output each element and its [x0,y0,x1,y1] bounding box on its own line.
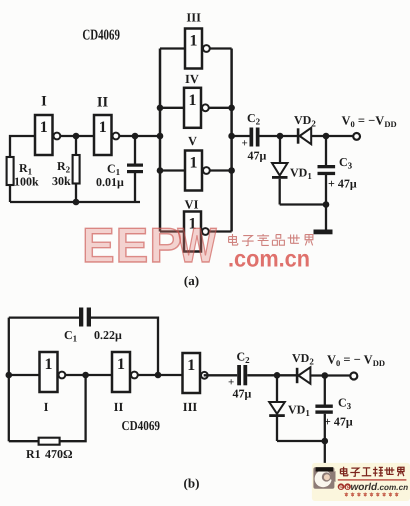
inverter U1-I [35,115,60,155]
wire C1 bottom to rail [134,173,136,202]
wire top feedback right (b) [91,318,158,375]
wire node A down to VD1 [279,136,281,163]
wire I out to II in (b) [65,374,112,376]
wire left bus (b) [8,318,10,442]
wire to ground (b) [324,441,326,467]
eeworld logo underline [338,479,407,480]
svg-text:W: W [178,219,218,273]
node ground junction (a) [323,201,330,208]
diode VD2 (a) [297,128,311,144]
svg-text:EEP: EEP [82,219,183,273]
svg-text:470Ω: 470Ω [45,447,73,461]
svg-text:IV: IV [185,72,199,86]
diode VD1 (b) [269,402,285,417]
svg-text:1: 1 [99,119,107,136]
node left bus - V in [157,167,164,174]
inverter U1-IV [184,88,209,128]
inverter U2-III (b) [183,353,208,393]
wire C2 to VD2 [260,135,298,137]
diode VD1 (a) [272,163,288,179]
node R2 top junction [73,133,80,140]
wire II out to bus [120,135,161,137]
wire bottom rail (a) [10,201,140,203]
svg-text:1: 1 [187,357,195,374]
inverter U1-II [94,115,119,155]
capacitor C2 (b) [237,365,247,385]
resistor R2 [73,155,80,184]
svg-text:1: 1 [190,155,198,172]
svg-text:III: III [183,400,198,414]
wire II out to III in (b) [138,374,183,376]
svg-text:47μ: 47μ [248,149,267,163]
node node A (b) [274,372,281,379]
svg-text:(a): (a) [184,273,199,288]
node left bus - IV in [157,105,164,112]
svg-text:II: II [97,95,109,111]
wire node B down to C3 [325,136,327,165]
wire R1 to junction (b) [60,375,86,441]
wire V output [210,169,232,171]
node C1 return junction (b) [155,372,162,379]
inverter U2-I (b) [40,352,66,392]
eeworld logo slogan [344,493,348,497]
resistor R1 [7,157,14,185]
wire III output [210,47,232,49]
svg-text:III: III [186,11,201,25]
svg-text:e: e [339,484,343,491]
wire bus to C2 [232,135,250,137]
wire down to C1 [134,136,136,164]
wire top feedback left (b) [9,316,79,318]
wire to I input (b) [9,374,40,376]
svg-text:0.22μ: 0.22μ [94,328,122,342]
svg-text:.com.cn: .com.cn [377,483,408,492]
eeworld logo url [338,482,408,497]
capacitor C3 (a) [318,165,336,175]
wire VI output [209,230,232,232]
node left bus junction (b) [6,372,13,379]
wire C3 bottom (b) [324,414,326,441]
capacitor C1 [127,164,143,174]
svg-text:1: 1 [45,356,53,373]
svg-text:I: I [44,400,49,414]
ground (b) / logo icon top bar [316,467,334,471]
wire VD1 to bottom (b) [276,417,278,441]
inverter U1-V [185,151,210,191]
svg-text:II: II [114,400,124,414]
node C1 top junction [132,133,139,140]
wire R2 bottom [75,184,77,203]
output terminal V0 (a) [353,133,360,140]
wire VD1 to bottom [279,179,281,205]
svg-text:I: I [41,94,47,110]
svg-text:CD4069: CD4069 [122,418,161,433]
svg-text:R1: R1 [26,447,41,461]
node ground junction (b) [322,438,329,445]
svg-text:1: 1 [117,356,125,373]
svg-text:e: e [346,484,350,491]
diode VD2 (b) [296,367,311,383]
wire C3 bottom [325,175,327,205]
wire node A down to VD1 (b) [276,375,278,402]
wire I out to II in [60,135,94,137]
wire R1 bottom [9,185,11,202]
node node A (a) [277,133,284,140]
capacitor C3 (b) [315,405,332,414]
wire V input [160,169,185,171]
svg-text:0.01μ: 0.01μ [96,175,124,189]
wire III input [160,47,185,49]
node right bus - V out [228,167,235,174]
svg-text:world: world [351,482,379,493]
node R2 bottom junction [73,199,80,206]
wire bottom link (a) [280,203,326,205]
svg-text:.com.cn: .com.cn [228,246,310,272]
wire VD2 to output (b) [310,374,350,376]
svg-text:1: 1 [190,33,198,50]
wire III out to C2 (b) [204,374,238,376]
svg-text:(b): (b) [184,476,200,491]
inverter U2-II (b) [112,352,138,392]
wire left bus (a) [159,49,162,232]
wire bottom link (b) [277,440,325,442]
node left bus - main [157,133,164,140]
node R1 junction (b) [82,372,89,379]
wire node B down to C3 (b) [324,376,326,405]
output terminal V0 (b) [350,373,357,380]
watermark text dianzi chanpin shijie [229,234,238,245]
svg-text:30k: 30k [52,174,71,188]
svg-text:100k: 100k [14,175,39,189]
wire IV input [160,107,184,109]
node right bus - IV out [228,105,235,112]
svg-text:VI: VI [185,198,199,212]
wire I-input to R1 top [10,136,35,157]
wire right bus (a) [230,49,233,232]
eeworld logo title dianzi gongcheng shijie [340,467,347,476]
capacitor C2 (polarized) [250,128,260,147]
wire C2 to VD2 (b) [247,374,296,376]
ground (a) [314,230,333,235]
wire to ground (a) [325,205,327,230]
svg-text:CD4069: CD4069 [82,28,120,44]
node node B (b) [322,372,329,379]
eeworld logo background [312,463,410,501]
eeworld logo icon [313,467,335,489]
resistor R1 (b) [39,438,60,445]
inverter U1-III [185,29,210,69]
node right bus - C2 [228,133,235,140]
wire rail to R1 (b) [9,440,39,442]
wire IV output [209,107,232,109]
svg-text:V: V [188,134,197,148]
svg-text:47μ: 47μ [233,387,252,401]
capacitor C1 (b) [79,308,91,327]
svg-text:1: 1 [40,119,48,136]
node node B (a) [323,133,330,140]
inverter U1-VI [184,212,209,252]
wire VI input [160,230,184,232]
wire down to R2 [75,136,77,155]
wire VD2 to output [311,135,353,137]
svg-text:+ 47μ: + 47μ [328,177,357,191]
svg-text:1: 1 [189,92,197,109]
svg-text:+ 47μ: + 47μ [324,415,353,429]
